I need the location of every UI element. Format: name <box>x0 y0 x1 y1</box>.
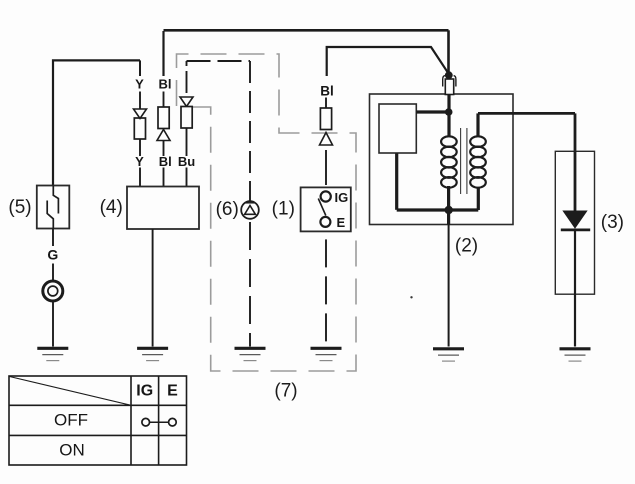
svg-text:Bl: Bl <box>320 84 334 99</box>
svg-text:(2): (2) <box>455 236 478 257</box>
svg-text:E: E <box>167 383 178 400</box>
svg-text:G: G <box>47 247 58 263</box>
svg-text:OFF: OFF <box>54 411 88 430</box>
svg-text:Bl: Bl <box>159 77 172 92</box>
svg-text:Y: Y <box>135 154 144 169</box>
svg-text:Bl: Bl <box>159 154 172 169</box>
svg-text:E: E <box>337 215 346 230</box>
svg-text:ON: ON <box>59 441 85 460</box>
svg-text:IG: IG <box>335 190 349 205</box>
svg-text:(7): (7) <box>274 381 297 402</box>
svg-text:(1): (1) <box>272 199 295 220</box>
svg-text:(6): (6) <box>216 199 239 220</box>
svg-text:Y: Y <box>135 77 144 92</box>
svg-text:(3): (3) <box>601 212 624 233</box>
svg-text:(5): (5) <box>8 197 31 218</box>
svg-text:(4): (4) <box>100 197 123 218</box>
svg-text:Bu: Bu <box>178 154 195 169</box>
svg-text:IG: IG <box>136 383 153 400</box>
